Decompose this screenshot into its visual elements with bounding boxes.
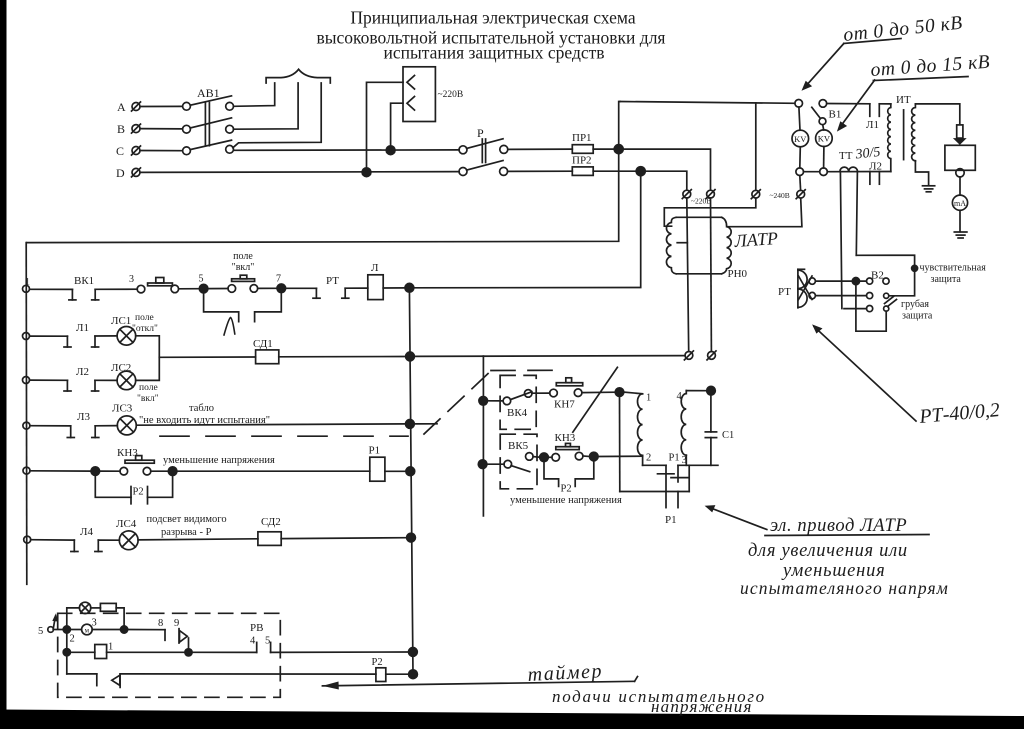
wire KV top bus [620,102,795,104]
timer arrow [322,681,634,686]
svg-text:РТ: РТ [326,275,339,287]
svg-text:ВК5: ВК5 [508,440,529,452]
svg-text:уменьшение напряжения: уменьшение напряжения [163,455,275,466]
test object box [945,145,975,170]
svg-text:ЛС3: ЛС3 [112,403,133,415]
milliammeter mA [952,195,967,210]
wire riser to KV bus [619,102,620,145]
svg-text:Л: Л [371,262,379,274]
core IT [903,110,905,160]
wire P to fuses [508,148,573,150]
svg-text:поле: поле [135,313,154,323]
contact L holding [204,289,239,322]
node 2 [53,629,63,631]
node RT terminal 1 [809,278,815,284]
svg-text:D: D [116,166,125,180]
svg-text:грубая: грубая [901,299,929,310]
wire -240V drop [755,103,757,191]
wire LS4 to SD2 [138,539,258,540]
wire coarse protection path [856,285,886,332]
svg-text:Р1: Р1 [369,445,381,457]
svg-text:от 0 до 50 кВ: от 0 до 50 кВ [842,13,963,46]
node KN3c left [540,453,549,462]
wire D branch to ~220V terminal [645,171,687,190]
terminal -240V [752,190,760,198]
svg-text:Л4: Л4 [80,526,93,538]
wire A to AB1 [140,105,183,107]
arrow up stub [53,617,55,630]
node sensitive label dot [912,265,918,271]
scan border bottom bar [0,710,1024,729]
switch VK4 [503,397,511,405]
svg-text:7: 7 [276,274,281,285]
svg-text:испытания защитных средств: испытания защитных средств [383,43,604,63]
node KN3 left [91,467,100,476]
ground mA [954,231,967,233]
svg-text:ЛС1: ЛС1 [111,315,131,327]
node D-220V junction [362,168,371,177]
wire C to AB1 [140,150,183,152]
svg-text:С1: С1 [722,430,734,441]
svg-text:защита: защита [902,311,933,322]
node C-220V junction [386,146,395,155]
row2: terminal L1 [23,333,30,340]
row3: terminal L2 [23,377,30,384]
switch VK5 [504,460,512,468]
node KV1 bottom circle [796,168,804,176]
svg-text:Л1: Л1 [866,119,879,131]
node KN3c right [590,452,599,461]
svg-text:от 0 до 15 кВ: от 0 до 15 кВ [870,52,991,81]
svg-text:РВ: РВ [250,622,263,634]
terminal LATR out left [685,352,693,360]
annotation arrow RT-40 [814,327,916,421]
svg-text:4: 4 [250,636,256,647]
svg-text:Л3: Л3 [77,411,90,423]
wire D line [140,171,459,174]
svg-text:ВК1: ВК1 [74,275,94,287]
wire LS1-LS2 join [136,336,160,381]
svg-text:Р2: Р2 [372,657,383,668]
discharge arrow to test object [957,125,963,138]
svg-text:3: 3 [92,618,97,629]
timer box RV dashed [58,613,281,697]
svg-text:защита: защита [931,274,962,285]
node RT terminal 2 [809,292,815,298]
svg-text:1: 1 [108,642,113,653]
right control rail [409,288,413,674]
wire phase B riser [234,83,299,129]
svg-text:2: 2 [646,453,651,464]
winding IT primary [888,104,891,172]
node lamp join [121,626,128,633]
motor M [82,624,93,635]
row3 flag contact [67,673,97,675]
label L handwritten [224,318,235,336]
wire LATR wiper taps [687,198,689,351]
svg-text:8: 8 [158,618,163,629]
svg-text:5: 5 [38,626,43,637]
resistor [91,607,101,609]
feeder brace symbol [266,69,330,83]
wire C branch to -240V terminal [623,149,710,190]
svg-text:поле: поле [233,251,253,262]
wire row2 to rail [271,651,409,653]
wire B2 row3 from TT [844,308,867,310]
svg-text:уменьшение напряжения: уменьшение напряжения [510,495,622,506]
wire LATR left input [664,198,756,226]
wire RT to B2 row2 [815,295,866,297]
wire winding bus [643,464,666,466]
svg-text:поле: поле [139,383,158,393]
svg-text:СД1: СД1 [253,338,273,350]
svg-text:Р1: Р1 [665,514,677,526]
winding IT secondary [912,104,916,161]
node sensitive-tap junction [852,278,859,285]
wire SD1 row [159,356,255,358]
svg-text:Л1: Л1 [76,322,89,334]
svg-text:ИТ: ИТ [896,94,911,106]
wire LATR right input [727,198,802,227]
svg-text:эл. привод ЛАТР: эл. привод ЛАТР [770,516,907,536]
svg-text:для увеличения или: для увеличения или [748,541,908,561]
svg-text:Р1: Р1 [669,453,680,464]
svg-text:В: В [117,122,125,136]
svg-text:напряжения: напряжения [651,697,753,716]
node VK4 feed [479,397,488,406]
wire KV bottom bus [804,171,820,173]
svg-text:mA: mA [954,199,966,208]
svg-text:СД2: СД2 [261,516,281,528]
svg-text:ТТ: ТТ [839,150,853,162]
svg-text:"вкл": "вкл" [232,262,255,273]
node rail LS3 [406,420,415,429]
svg-text:подсвет видимого: подсвет видимого [147,514,227,525]
wire PR1 to terminal [593,148,614,150]
wire phase A riser [234,83,275,106]
autotransformer LATR body [676,216,721,218]
coil RV [95,645,107,659]
ground IT secondary [923,185,935,187]
voltmeter KV1 [792,130,809,147]
wire control rail feed [27,154,619,243]
svg-text:KV: KV [818,134,831,144]
node PR1 junction [614,145,623,154]
svg-text:КН7: КН7 [554,399,575,411]
node KV bus left circle [795,100,803,108]
svg-text:5: 5 [199,274,204,285]
box VK5 dashed [500,434,537,489]
wire motor common [619,396,621,491]
contact 8 [128,629,165,631]
wire B to AB1 [140,128,183,130]
wire 220V box lower lead [391,103,403,150]
node VK5 feed [478,460,487,469]
svg-text:~240В: ~240В [770,191,790,200]
row4: terminal L3 [23,422,30,429]
svg-text:А: А [117,100,126,114]
contact P1 [665,465,667,491]
svg-text:9: 9 [174,618,179,629]
svg-text:РТ: РТ [778,286,791,298]
contact P2 center [544,462,559,487]
terminal ~220V [683,190,691,198]
svg-text:KV: KV [794,134,807,144]
node rail SD1 [406,352,415,361]
boundary dash line [160,435,408,437]
svg-text:м: м [85,627,90,635]
wire IT secondary bottom to ground [915,161,928,186]
terminal KV drop [797,190,805,198]
node flag join [185,649,192,656]
node rail KN3 row [406,467,415,476]
node rail row1 [405,283,414,292]
svg-text:Принципиальная электрическая с: Принципиальная электрическая схема [350,8,635,28]
wire TT secondary right [856,172,857,256]
terminal LATR out right [708,352,716,360]
contact P2 left [95,475,131,497]
wire phase C riser [233,83,321,148]
svg-text:таймер: таймер [527,660,603,686]
node motor up [615,388,624,397]
wire row1 feed from PR2 [414,176,641,288]
svg-text:АВ1: АВ1 [197,86,220,100]
svg-text:Л2: Л2 [76,366,89,378]
lamp branch [67,608,80,630]
row2: node coil1 [63,649,70,656]
wire to mA [959,177,961,195]
svg-text:ВК4: ВК4 [507,407,528,419]
wire to winding 1 [624,392,643,394]
svg-text:РТ-40/0,2: РТ-40/0,2 [918,399,1001,428]
svg-text:"вкл": "вкл" [137,394,159,404]
wire to P1 [177,470,370,472]
label el privod handwritten [710,508,767,530]
wire IT secondary top [915,104,959,124]
wire to KN7 [532,392,550,394]
node winding4 top [707,386,716,395]
svg-text:табло: табло [189,403,214,414]
wire KN3c to winding 2 [598,455,643,457]
svg-text:чувствительная: чувствительная [920,263,987,274]
terminal tap2 [707,190,715,198]
wire SD1 row to LATR terminal [414,355,685,358]
svg-text:Р2: Р2 [133,487,144,498]
svg-text:испытателяного напрям: испытателяного напрям [740,578,949,598]
svg-text:КН3: КН3 [555,432,576,444]
svg-text:ЛС4: ЛС4 [116,518,137,530]
wire center feed [482,356,484,516]
supply box ~220V [403,67,435,122]
node KN3 right [168,467,177,476]
row6: terminal L4 [24,536,31,543]
svg-text:5: 5 [265,636,270,647]
node PR2 junction [636,167,645,176]
svg-text:разрыва - Р: разрыва - Р [161,527,212,538]
wire PR2 to terminal [593,170,636,172]
svg-text:С: С [116,144,124,158]
svg-text:1: 1 [646,393,651,404]
wire LS3 row [136,424,405,425]
node rail row2 [409,648,418,657]
wire sensitive protection path [856,255,914,296]
node rail SD2 [407,533,416,542]
svg-text:Р2: Р2 [561,484,572,495]
row5: terminal KN3 [23,467,30,474]
wire RT to B2 row1 [815,280,866,282]
svg-text:В1: В1 [829,109,842,121]
svg-text:ПР2: ПР2 [572,155,592,167]
wire row3 to coil P2 [120,673,376,675]
svg-text:ПР1: ПР1 [572,132,592,144]
wire C line to contactor P [234,149,460,151]
svg-text:~220В: ~220В [438,90,464,100]
svg-text:РН0: РН0 [728,268,748,280]
node KV2 bottom circle [820,168,828,176]
wire VK5 to KN3c [533,456,540,459]
wire TT secondary left [840,172,842,309]
svg-text:3: 3 [129,274,134,285]
svg-text:Р: Р [477,126,484,140]
coil P1 stubs [665,492,667,508]
wire 220V box upper lead [367,82,404,172]
scan border left bar [0,0,7,712]
node rail row3 [409,670,418,679]
node KV bus right circle [819,100,827,108]
svg-text:ЛАТР: ЛАТР [733,228,779,251]
voltmeter KV2 [816,130,833,147]
left supply rail [25,243,28,585]
capacitor C1 [710,395,712,432]
svg-text:2: 2 [70,634,75,645]
wire KV1 to -240V terminal [799,176,802,191]
box VK4 dashed [500,375,536,429]
